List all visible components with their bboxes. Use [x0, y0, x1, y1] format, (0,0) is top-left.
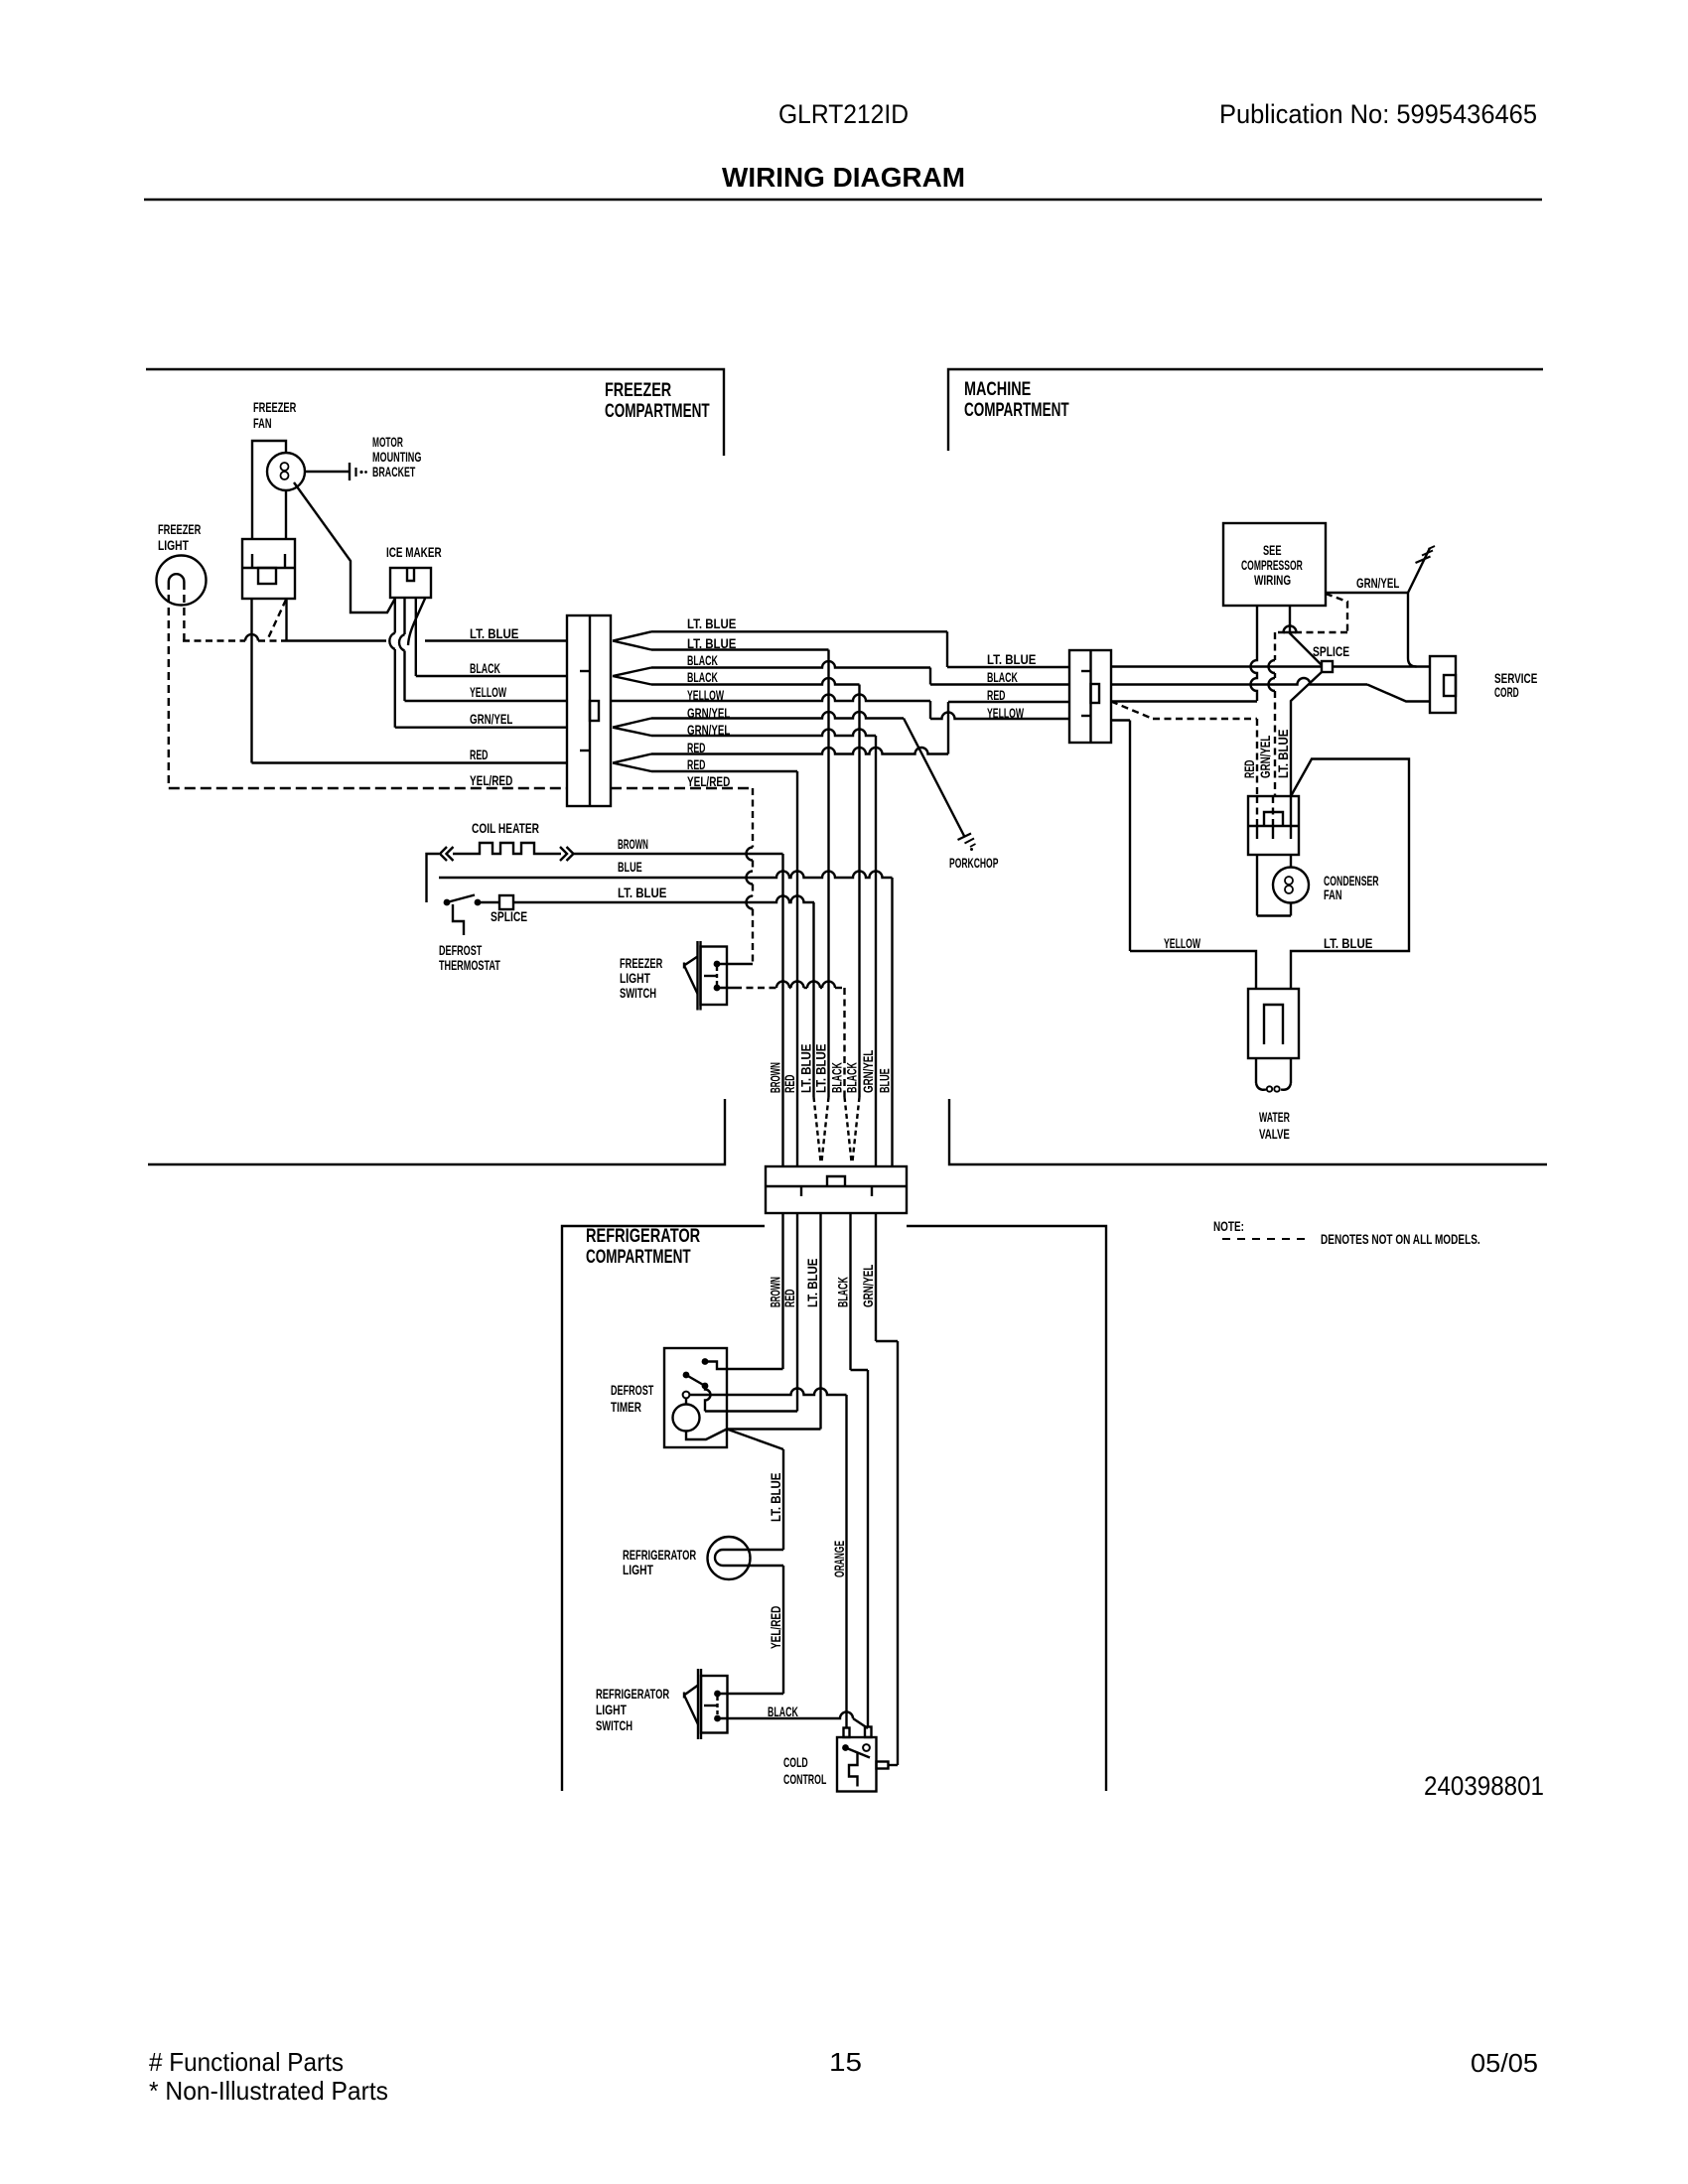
- svg-text:LT. BLUE: LT. BLUE: [687, 616, 736, 631]
- svg-text:COIL HEATER: COIL HEATER: [472, 821, 539, 836]
- svg-text:LIGHT: LIGHT: [158, 538, 189, 553]
- svg-text:LIGHT: LIGHT: [596, 1703, 627, 1717]
- wire BLACK to machine compartment: [651, 661, 930, 667]
- condenser fan motor: [1273, 868, 1309, 903]
- svg-text:GRN/YEL: GRN/YEL: [861, 1050, 876, 1093]
- svg-text:DENOTES NOT ON ALL MODELS.: DENOTES NOT ON ALL MODELS.: [1321, 1232, 1480, 1247]
- wire LT. BLUE defrost timer to refrigerator light: [727, 1430, 783, 1450]
- wire pair LT. BLUE from connector pin 1: [613, 631, 651, 649]
- svg-text:REFRIGERATOR: REFRIGERATOR: [623, 1548, 696, 1563]
- svg-text:COMPARTMENT: COMPARTMENT: [964, 399, 1069, 421]
- motor mounting bracket symbol: [349, 463, 351, 480]
- wire pair RED from connector pin 4: [613, 754, 651, 772]
- coil heater element BROWN wire: [427, 854, 440, 902]
- svg-text:SWITCH: SWITCH: [596, 1718, 633, 1733]
- wire dashed stub from fan connector: [268, 600, 286, 638]
- defrost timer contact 1: [702, 1358, 709, 1365]
- wire GRN/YEL ice maker to connector: [395, 727, 567, 729]
- svg-text:FREEZER: FREEZER: [620, 956, 662, 971]
- svg-text:CORD: CORD: [1494, 685, 1519, 700]
- wire LT. BLUE connector to splice: [1111, 665, 1322, 667]
- refrigerator compartment border right: [907, 1226, 1106, 1791]
- splice freezer: [499, 895, 513, 909]
- wire BLACK connector to service cord: [1111, 678, 1367, 685]
- svg-text:LT. BLUE: LT. BLUE: [799, 1044, 814, 1093]
- wire RED freezer fan to connector: [252, 761, 568, 763]
- svg-text:YELLOW: YELLOW: [687, 688, 725, 703]
- svg-text:MACHINE: MACHINE: [964, 378, 1031, 400]
- wire LT. BLUE splice to service cord: [1333, 665, 1430, 667]
- svg-text:LT. BLUE: LT. BLUE: [1276, 730, 1291, 778]
- svg-text:RED: RED: [470, 748, 489, 762]
- wire pair BLACK from connector pin 2: [613, 668, 651, 685]
- freezer light bulb: [157, 556, 207, 606]
- freezer fan motor circle: [267, 453, 305, 490]
- wire BROWN bundle down: [781, 854, 783, 1166]
- svg-text:DEFROST: DEFROST: [611, 1383, 654, 1398]
- ice maker body: [390, 568, 431, 598]
- svg-text:15: 15: [829, 2047, 862, 2077]
- freezer fan connector: [242, 539, 295, 599]
- wire YELLOW through to machine compartment: [611, 695, 930, 702]
- wire pair GRN/YEL from connector pin 3: [613, 719, 651, 737]
- svg-text:YELLOW: YELLOW: [1164, 936, 1201, 951]
- wire BLACK connector to refrigerator light switch: [849, 1213, 851, 1370]
- svg-text:GRN/YEL: GRN/YEL: [1356, 576, 1399, 591]
- svg-text:LIGHT: LIGHT: [623, 1563, 653, 1577]
- svg-text:LT. BLUE: LT. BLUE: [805, 1259, 820, 1307]
- svg-text:COMPARTMENT: COMPARTMENT: [586, 1246, 691, 1268]
- svg-text:* Non-Illustrated Parts: * Non-Illustrated Parts: [149, 2076, 388, 2106]
- wire YELLOW ice maker to connector: [405, 700, 568, 702]
- svg-text:LT. BLUE: LT. BLUE: [1324, 936, 1372, 951]
- wire RED to machine compartment: [651, 748, 948, 753]
- svg-text:PORKCHOP: PORKCHOP: [949, 856, 998, 871]
- wire GRN/YEL bundle down: [875, 736, 877, 1166]
- wire LT. BLUE into defrost timer motor: [727, 1428, 821, 1430]
- wire freezer fan left pin to RED: [250, 599, 252, 763]
- svg-text:COLD: COLD: [783, 1755, 808, 1770]
- svg-text:COMPARTMENT: COMPARTMENT: [605, 400, 710, 422]
- wire LT. BLUE splice down to overload connector: [1291, 672, 1322, 796]
- svg-text:RED: RED: [687, 757, 706, 772]
- refrigerator light switch body: [697, 1669, 699, 1739]
- svg-text:FAN: FAN: [1324, 887, 1342, 902]
- cold control body: [837, 1737, 877, 1792]
- svg-text:VALVE: VALVE: [1259, 1127, 1290, 1142]
- svg-text:BRACKET: BRACKET: [372, 465, 416, 479]
- freezer bulkhead connector: [567, 615, 611, 806]
- title rule: [144, 199, 1542, 201]
- svg-text:RED: RED: [1242, 759, 1257, 778]
- svg-text:GRN/YEL: GRN/YEL: [1258, 736, 1273, 778]
- svg-text:WIRING DIAGRAM: WIRING DIAGRAM: [722, 162, 965, 193]
- wire LT. BLUE freezer light / ice maker to connector: [183, 639, 245, 641]
- svg-text:WATER: WATER: [1259, 1110, 1290, 1125]
- svg-text:LT. BLUE: LT. BLUE: [618, 886, 666, 900]
- svg-text:BLACK: BLACK: [830, 1062, 845, 1093]
- svg-text:SPLICE: SPLICE: [491, 909, 527, 924]
- svg-text:BLACK: BLACK: [836, 1277, 851, 1307]
- svg-text:RED: RED: [987, 688, 1006, 703]
- svg-text:YEL/RED: YEL/RED: [769, 1606, 783, 1649]
- svg-text:COMPRESSOR: COMPRESSOR: [1241, 558, 1303, 573]
- wire BLACK ice maker to connector: [416, 675, 567, 677]
- wire LT. BLUE down to refrigerator bundle: [651, 648, 829, 650]
- svg-text:BROWN: BROWN: [769, 1277, 783, 1307]
- svg-text:LT. BLUE: LT. BLUE: [470, 626, 518, 641]
- defrost timer contact 2: [683, 1372, 690, 1379]
- svg-text:BLACK: BLACK: [987, 670, 1018, 685]
- svg-text:REFRIGERATOR: REFRIGERATOR: [586, 1225, 700, 1247]
- wire LT. BLUE loop to water valve: [1291, 759, 1409, 990]
- compressor pin to RED: [1251, 606, 1257, 701]
- svg-text:ICE MAKER: ICE MAKER: [386, 545, 442, 560]
- wire GRN/YEL to porkchop ground: [651, 712, 904, 719]
- svg-text:BLACK: BLACK: [687, 653, 718, 668]
- svg-text:FAN: FAN: [253, 416, 272, 431]
- condenser fan loop: [1256, 855, 1258, 916]
- cold control ground pin: [877, 1762, 889, 1769]
- svg-text:# Functional Parts: # Functional Parts: [149, 2047, 344, 2077]
- svg-text:SERVICE: SERVICE: [1494, 671, 1537, 686]
- wire YELLOW connector to condenser loop: [1111, 719, 1130, 721]
- refrigerator compartment border left: [562, 1226, 765, 1791]
- wire BLACK down to refrigerator bundle: [651, 678, 860, 684]
- svg-text:BROWN: BROWN: [769, 1062, 783, 1093]
- service cord ground symbol: [1408, 548, 1430, 593]
- wire BLUE from coil heater: [439, 872, 893, 879]
- wire RED connector to compressor pin: [1111, 700, 1257, 702]
- service cord plug: [1430, 656, 1456, 713]
- machine compartment border top: [948, 369, 1543, 451]
- svg-text:LT. BLUE: LT. BLUE: [814, 1044, 829, 1093]
- defrost thermostat contact: [444, 899, 451, 906]
- ice maker pin 2 to YELLOW: [403, 598, 405, 634]
- freezer compartment border bottom: [148, 1099, 725, 1164]
- svg-text:BROWN: BROWN: [618, 837, 648, 852]
- overload relay connector: [1256, 796, 1258, 826]
- wire dashed freezer light left terminal down: [168, 582, 170, 788]
- svg-text:YELLOW: YELLOW: [987, 706, 1025, 721]
- wire BROWN connector to defrost timer: [781, 1213, 783, 1369]
- wire RED down to refrigerator bundle: [651, 770, 797, 772]
- svg-text:GLRT212ID: GLRT212ID: [778, 99, 909, 129]
- wire dashed freezer light right terminal down: [183, 582, 185, 641]
- svg-text:THERMOSTAT: THERMOSTAT: [439, 958, 500, 973]
- cold control contacts: [842, 1744, 849, 1751]
- water valve: [1248, 989, 1299, 1058]
- wire RED bundle down: [796, 771, 798, 1166]
- defrost thermostat sensor: [453, 904, 464, 935]
- svg-text:FREEZER: FREEZER: [605, 379, 671, 401]
- svg-text:TIMER: TIMER: [611, 1400, 641, 1415]
- svg-text:REFRIGERATOR: REFRIGERATOR: [596, 1687, 669, 1702]
- wire GRN/YEL connector to cold control: [875, 1213, 877, 1341]
- wire LT. BLUE connector to defrost timer: [819, 1213, 821, 1430]
- svg-text:BLACK: BLACK: [470, 661, 500, 676]
- svg-text:BLACK: BLACK: [687, 670, 718, 685]
- ice maker pin 3 to BLACK: [415, 598, 417, 676]
- svg-text:BLACK: BLACK: [768, 1705, 798, 1719]
- svg-text:CONTROL: CONTROL: [783, 1772, 826, 1787]
- freezer light switch body: [696, 941, 698, 1011]
- wire YEL/RED dashed to freezer light switch: [611, 787, 753, 789]
- svg-text:DEFROST: DEFROST: [439, 943, 483, 958]
- svg-text:CONDENSER: CONDENSER: [1324, 874, 1379, 888]
- wire RED connector to defrost timer: [796, 1213, 798, 1412]
- wire freezer light switch to YEL/RED: [717, 963, 753, 965]
- svg-text:240398801: 240398801: [1424, 1771, 1544, 1801]
- porkchop ground strap: [904, 719, 964, 837]
- ground strap freezer fan to ice maker: [294, 482, 395, 613]
- svg-text:BLUE: BLUE: [618, 860, 642, 875]
- svg-text:05/05: 05/05: [1471, 2048, 1538, 2078]
- motor mounting bracket lead: [305, 471, 350, 473]
- wire YEL/RED refrigerator light to switch: [751, 1565, 784, 1567]
- freezer light switch plunger: [684, 957, 698, 995]
- svg-text:Publication No: 5995436465: Publication No: 5995436465: [1219, 99, 1537, 129]
- wire YELLOW loop to water valve: [1130, 951, 1256, 989]
- wire GRN/YEL service cord ground: [1326, 592, 1408, 594]
- wire BLACK dashed freezer light switch to bundle: [717, 987, 735, 989]
- defrost timer contact 3: [702, 1383, 709, 1390]
- freezer compartment border top: [146, 369, 724, 456]
- wire GRN/YEL down to service cord: [1408, 593, 1417, 667]
- svg-text:SWITCH: SWITCH: [620, 986, 656, 1001]
- splice machine: [1322, 661, 1333, 672]
- machine bulkhead connector: [1069, 650, 1111, 743]
- ice maker pin 4 to LT. BLUE: [408, 598, 425, 645]
- compressor pin to splice: [1290, 606, 1322, 665]
- svg-text:WIRING: WIRING: [1254, 573, 1291, 588]
- wire BLUE bundle down: [891, 878, 893, 1166]
- wire BLACK dashed bundle down: [845, 1097, 852, 1161]
- svg-text:SPLICE: SPLICE: [1313, 644, 1349, 659]
- wire ORANGE defrost timer to cold control: [845, 1395, 847, 1728]
- refrigerator bulkhead connector: [766, 1166, 907, 1213]
- ice maker pin 1 to GRN/YEL: [394, 598, 396, 633]
- svg-text:RED: RED: [782, 1074, 797, 1093]
- wire LT. BLUE from defrost thermostat to bundle: [478, 901, 499, 903]
- defrost timer motor: [685, 1399, 687, 1405]
- see compressor wiring box: [1223, 523, 1326, 606]
- svg-text:YELLOW: YELLOW: [470, 685, 507, 700]
- freezer fan frame: [252, 441, 286, 539]
- freezer fan motor windings: [281, 463, 289, 471]
- svg-text:YEL/RED: YEL/RED: [470, 773, 512, 788]
- wire LT. BLUE bundle down from defrost thermostat: [812, 902, 814, 1097]
- wire BLACK bundle down: [858, 685, 860, 1098]
- wire LT. BLUE bundle down from freezer connector: [827, 650, 829, 1098]
- wire BLACK refrigerator light switch to cold control: [718, 1712, 854, 1718]
- svg-text:NOTE:: NOTE:: [1213, 1219, 1244, 1234]
- svg-text:FREEZER: FREEZER: [253, 400, 296, 415]
- water valve coil: [1256, 1083, 1266, 1090]
- wire freezer fan right pin down: [285, 599, 287, 641]
- svg-text:BLUE: BLUE: [878, 1068, 893, 1093]
- defrost timer contact 4 to ORANGE: [683, 1392, 690, 1399]
- svg-text:RED: RED: [782, 1289, 797, 1307]
- svg-text:GRN/YEL: GRN/YEL: [470, 712, 512, 727]
- svg-text:YEL/RED: YEL/RED: [687, 774, 730, 789]
- svg-text:FREEZER: FREEZER: [158, 522, 201, 537]
- wire refrigerator light switch to YEL/RED: [718, 1693, 784, 1695]
- svg-text:GRN/YEL: GRN/YEL: [861, 1265, 876, 1307]
- svg-text:MOTOR: MOTOR: [372, 435, 403, 450]
- svg-text:SEE: SEE: [1263, 543, 1282, 558]
- wire YEL/RED dashed freezer light to connector: [169, 787, 567, 789]
- cold control sensor: [849, 1753, 858, 1787]
- svg-text:MOUNTING: MOUNTING: [372, 450, 421, 465]
- svg-text:ORANGE: ORANGE: [832, 1541, 847, 1577]
- refrigerator light bulb: [708, 1537, 751, 1579]
- svg-text:LT. BLUE: LT. BLUE: [987, 652, 1036, 667]
- svg-text:LT. BLUE: LT. BLUE: [769, 1473, 783, 1522]
- machine compartment border bottom: [949, 1099, 1547, 1164]
- wire LT. BLUE to machine compartment: [651, 630, 947, 632]
- svg-text:LIGHT: LIGHT: [620, 971, 650, 986]
- wire RED dashed connector to overload connector: [1111, 702, 1153, 720]
- svg-text:BLACK: BLACK: [845, 1062, 860, 1093]
- refrigerator light switch plunger: [684, 1686, 698, 1725]
- wire GRN/YEL down to refrigerator bundle: [651, 730, 876, 736]
- defrost timer box: [664, 1348, 727, 1447]
- wire GRN/YEL dashed compressor to overload connector: [1326, 594, 1347, 632]
